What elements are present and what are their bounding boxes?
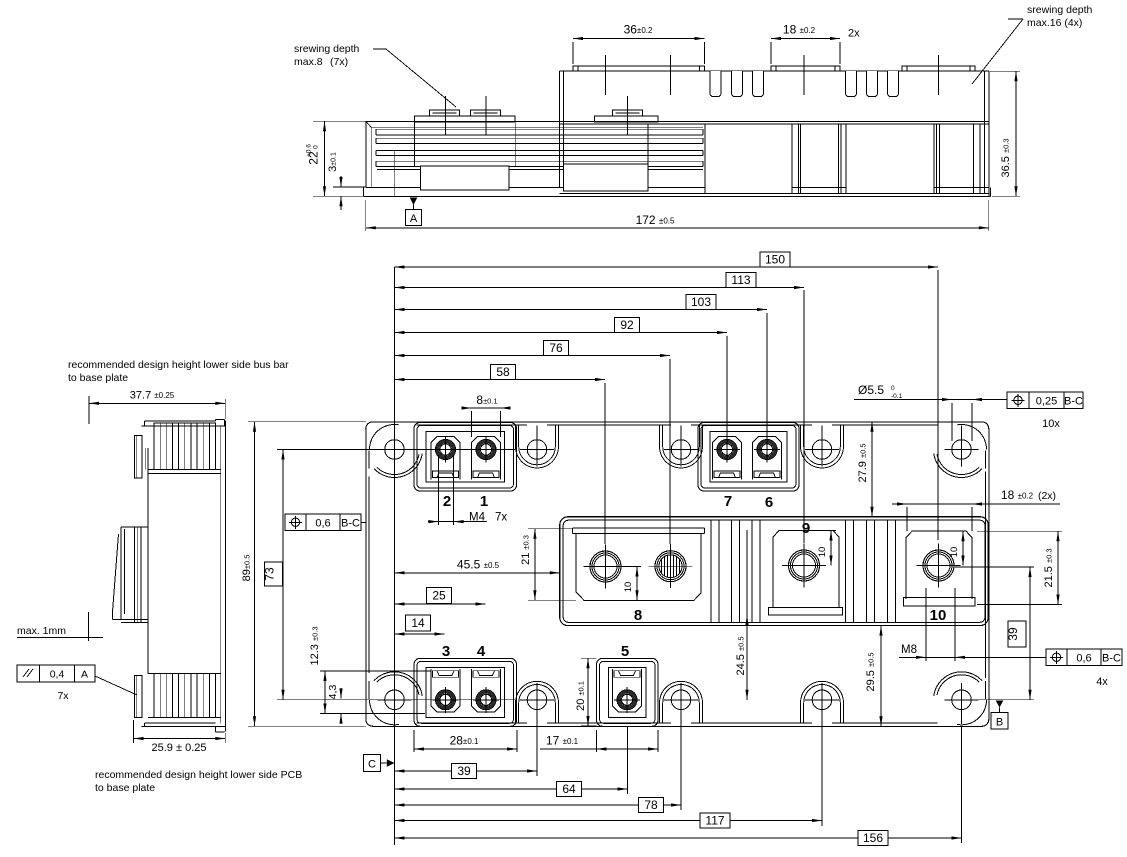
svg-text:21.5 ±0.3: 21.5 ±0.3 <box>1043 548 1055 587</box>
svg-text:150: 150 <box>765 253 785 267</box>
svg-text:2: 2 <box>443 493 451 510</box>
svg-text:25.9 ± 0.25: 25.9 ± 0.25 <box>152 742 207 754</box>
svg-text:recommended design height lowe: recommended design height lower side bus… <box>68 359 289 371</box>
svg-text:4,3: 4,3 <box>327 685 339 700</box>
svg-text:+0.6: +0.6 <box>306 144 313 157</box>
svg-text:C: C <box>368 759 376 771</box>
svg-text:max. 1mm: max. 1mm <box>17 625 66 637</box>
svg-text:9: 9 <box>802 520 810 537</box>
svg-text:39: 39 <box>1006 627 1020 641</box>
svg-text:8: 8 <box>634 607 642 624</box>
svg-text:24.5 ±0.5: 24.5 ±0.5 <box>735 636 747 675</box>
svg-text:0,6: 0,6 <box>1076 652 1091 664</box>
svg-text:156: 156 <box>863 831 883 845</box>
svg-text:B-C: B-C <box>1102 652 1121 664</box>
svg-text:7x: 7x <box>495 512 507 524</box>
svg-text:64: 64 <box>562 782 576 796</box>
svg-text:to base plate: to base plate <box>95 782 155 794</box>
svg-text:14: 14 <box>411 616 425 630</box>
svg-text:-0.1: -0.1 <box>891 393 903 400</box>
svg-text:1: 1 <box>480 493 488 510</box>
svg-text:0,4: 0,4 <box>50 669 65 681</box>
svg-text:37.7 ±0.25: 37.7 ±0.25 <box>130 390 175 402</box>
svg-text:to base plate: to base plate <box>68 372 128 384</box>
svg-text:4: 4 <box>477 643 486 660</box>
svg-text:113: 113 <box>731 273 750 287</box>
svg-text:0: 0 <box>313 145 320 149</box>
svg-text:B-C: B-C <box>1064 395 1083 407</box>
svg-text:10: 10 <box>817 547 828 558</box>
svg-text:7x: 7x <box>57 690 69 702</box>
svg-text:73: 73 <box>263 567 277 581</box>
svg-text:36.5 ±0.3: 36.5 ±0.3 <box>1000 138 1012 177</box>
svg-text:10x: 10x <box>1042 418 1060 430</box>
svg-text:max.8: max.8 <box>294 56 323 68</box>
svg-text:M4: M4 <box>469 512 486 524</box>
svg-text:20 ±0.1: 20 ±0.1 <box>575 681 587 711</box>
svg-text:Ø5.5: Ø5.5 <box>858 383 884 397</box>
svg-text:srewing depth: srewing depth <box>294 43 360 55</box>
svg-text:103: 103 <box>691 295 711 309</box>
svg-text:89±0.5: 89±0.5 <box>241 555 253 582</box>
svg-text:0: 0 <box>891 385 895 392</box>
svg-text:0,25: 0,25 <box>1036 395 1057 407</box>
svg-text:92: 92 <box>620 318 634 332</box>
svg-text:3: 3 <box>442 643 450 660</box>
svg-text:7: 7 <box>724 493 732 510</box>
svg-text:10: 10 <box>949 547 960 558</box>
svg-text:39: 39 <box>457 764 471 778</box>
svg-text:21 ±0.3: 21 ±0.3 <box>520 535 532 565</box>
svg-text:27.9 ±0.5: 27.9 ±0.5 <box>857 443 869 482</box>
svg-text:(2x): (2x) <box>1038 490 1056 502</box>
svg-text:117: 117 <box>705 814 724 828</box>
svg-text:2x: 2x <box>848 28 860 40</box>
svg-text:A: A <box>81 669 88 681</box>
svg-text:max.16 (4x): max.16 (4x) <box>1027 17 1082 29</box>
svg-text:B: B <box>996 717 1003 729</box>
svg-text:0,6: 0,6 <box>315 517 330 529</box>
svg-text:4x: 4x <box>1096 676 1108 688</box>
svg-text:5: 5 <box>621 643 629 660</box>
svg-text:B-C: B-C <box>341 517 360 529</box>
svg-text:A: A <box>410 213 418 225</box>
svg-text:10: 10 <box>623 582 634 593</box>
svg-text:6: 6 <box>765 494 773 511</box>
svg-text:29.5 ±0.5: 29.5 ±0.5 <box>865 652 877 691</box>
svg-text:78: 78 <box>644 798 658 812</box>
svg-text:58: 58 <box>496 365 510 379</box>
svg-text:M8: M8 <box>901 644 917 656</box>
svg-text:recommended design height lowe: recommended design height lower side PCB <box>95 769 302 781</box>
svg-text:(7x): (7x) <box>330 56 348 68</box>
svg-text:25: 25 <box>432 589 446 603</box>
svg-text:srewing depth: srewing depth <box>1027 4 1093 16</box>
svg-text:76: 76 <box>549 341 563 355</box>
svg-text:10: 10 <box>930 607 947 624</box>
svg-text:12.3 ±0.3: 12.3 ±0.3 <box>309 626 321 665</box>
